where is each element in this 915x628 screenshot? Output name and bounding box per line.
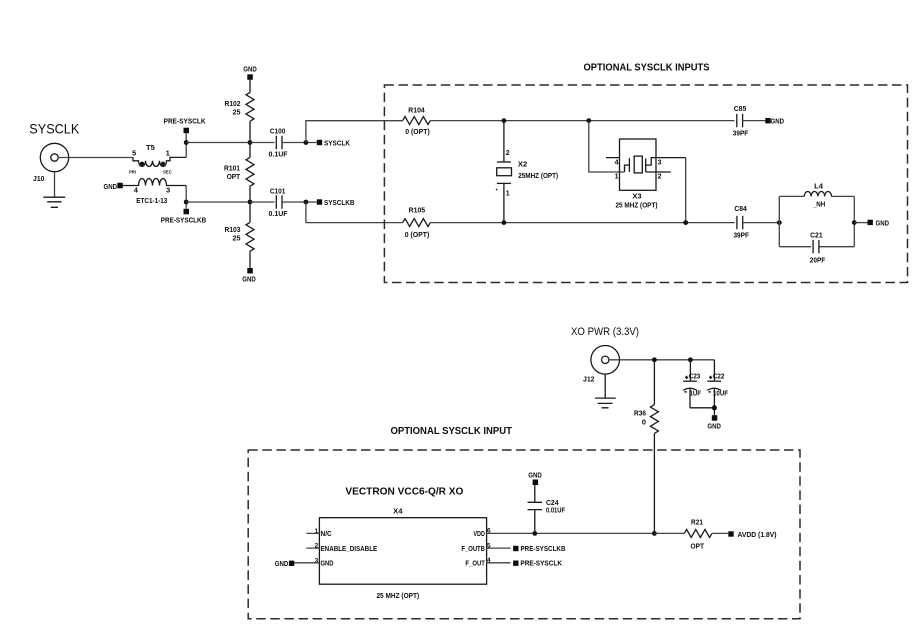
svg-text:R21: R21 — [691, 517, 704, 526]
svg-text:X3: X3 — [632, 192, 641, 201]
svg-text:F_OUT: F_OUT — [465, 561, 485, 568]
svg-text:SYSCLK: SYSCLK — [324, 139, 350, 148]
svg-text:PRE-SYSCLKB: PRE-SYSCLKB — [161, 216, 207, 225]
svg-text:0 (OPT): 0 (OPT) — [405, 127, 430, 136]
svg-text:J12: J12 — [583, 375, 595, 384]
svg-text:1UF: 1UF — [690, 391, 702, 398]
svg-text:0.1UF: 0.1UF — [269, 150, 288, 159]
svg-text:OPT: OPT — [691, 541, 705, 550]
svg-text:PRE-SYSCLK: PRE-SYSCLK — [164, 116, 206, 125]
svg-text:OPT: OPT — [227, 172, 241, 181]
svg-text:20PF: 20PF — [810, 255, 826, 264]
svg-text:25MHZ (OPT): 25MHZ (OPT) — [518, 171, 558, 180]
svg-text:GND: GND — [707, 422, 721, 431]
svg-text:39PF: 39PF — [733, 129, 749, 138]
svg-text:VECTRON VCC6-Q/R XO: VECTRON VCC6-Q/R XO — [345, 486, 463, 497]
svg-text:C100: C100 — [270, 127, 286, 136]
svg-text:GND: GND — [242, 274, 256, 283]
svg-text:OPTIONAL SYSCLK INPUT: OPTIONAL SYSCLK INPUT — [390, 426, 512, 437]
svg-text:0.01UF: 0.01UF — [546, 508, 566, 515]
svg-text:C21: C21 — [810, 230, 823, 239]
svg-text:R36: R36 — [634, 409, 646, 418]
svg-text:SYSCLKB: SYSCLKB — [324, 198, 355, 207]
svg-text:GND: GND — [528, 470, 542, 479]
svg-text:C84: C84 — [734, 204, 747, 213]
svg-text:3: 3 — [166, 185, 170, 194]
svg-text:10UF: 10UF — [713, 391, 729, 398]
svg-text:GND: GND — [771, 117, 785, 126]
svg-text:1: 1 — [315, 528, 319, 535]
svg-text:GND: GND — [275, 559, 289, 568]
svg-text:C23: C23 — [689, 374, 701, 381]
svg-text:PRE-SYSCLK: PRE-SYSCLK — [520, 559, 562, 568]
svg-text:GND: GND — [321, 561, 334, 568]
svg-text:SEC: SEC — [163, 170, 172, 175]
svg-text:ETC1-1-13: ETC1-1-13 — [136, 196, 167, 205]
svg-text:1: 1 — [615, 173, 619, 180]
svg-text:2: 2 — [658, 173, 662, 180]
svg-text:R104: R104 — [408, 105, 425, 114]
svg-text:39PF: 39PF — [733, 230, 749, 239]
svg-text:N/C: N/C — [321, 531, 332, 538]
svg-text:C22: C22 — [713, 374, 725, 381]
svg-text:R105: R105 — [409, 205, 426, 214]
svg-text:F_OUTB: F_OUTB — [461, 546, 485, 553]
svg-text:2: 2 — [506, 150, 510, 157]
svg-text:GND: GND — [876, 219, 890, 228]
svg-text:OPTIONAL SYSCLK INPUTS: OPTIONAL SYSCLK INPUTS — [584, 62, 710, 73]
svg-text:25: 25 — [233, 108, 242, 117]
svg-text:J10: J10 — [33, 174, 45, 183]
svg-text:0: 0 — [642, 417, 646, 426]
svg-text:AVDD (1.8V): AVDD (1.8V) — [738, 530, 777, 539]
svg-text:25: 25 — [233, 234, 242, 243]
svg-text:X4: X4 — [393, 506, 403, 515]
svg-text:VDD: VDD — [473, 531, 485, 538]
svg-text:L4: L4 — [814, 182, 824, 191]
svg-text:1: 1 — [506, 191, 510, 198]
svg-text:3: 3 — [315, 557, 319, 564]
svg-text:2: 2 — [315, 543, 319, 550]
svg-text:_NH: _NH — [812, 200, 825, 209]
svg-text:PRE-SYSCLKB: PRE-SYSCLKB — [521, 544, 566, 553]
svg-text:C101: C101 — [270, 187, 286, 196]
svg-text:3: 3 — [658, 159, 662, 166]
svg-text:XO PWR (3.3V): XO PWR (3.3V) — [571, 326, 639, 338]
svg-text:T5: T5 — [146, 143, 156, 152]
svg-text:ENABLE_DISABLE: ENABLE_DISABLE — [321, 546, 378, 553]
svg-text:4: 4 — [615, 159, 619, 166]
svg-text:PRI: PRI — [129, 170, 136, 175]
svg-text:C85: C85 — [734, 104, 747, 113]
svg-text:0 (OPT): 0 (OPT) — [405, 230, 430, 239]
svg-text:GND: GND — [104, 182, 118, 191]
svg-text:SYSCLK: SYSCLK — [29, 121, 80, 137]
svg-text:0.1UF: 0.1UF — [269, 209, 288, 218]
svg-text:GND: GND — [243, 65, 257, 74]
svg-text:C24: C24 — [546, 500, 559, 507]
svg-text:25 MHZ (OPT): 25 MHZ (OPT) — [616, 201, 658, 210]
svg-text:X2: X2 — [518, 159, 527, 168]
svg-text:25 MHZ (OPT): 25 MHZ (OPT) — [376, 591, 419, 600]
